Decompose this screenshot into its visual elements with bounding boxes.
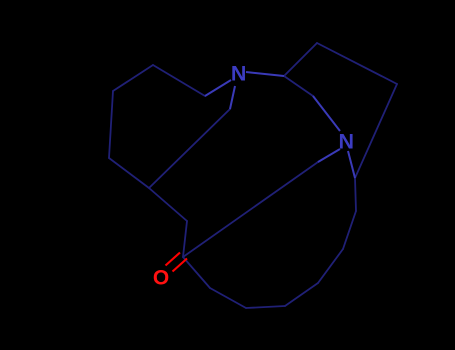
svg-text:N: N	[231, 61, 247, 85]
svg-text:O: O	[153, 267, 169, 290]
svg-text:N: N	[339, 129, 355, 153]
